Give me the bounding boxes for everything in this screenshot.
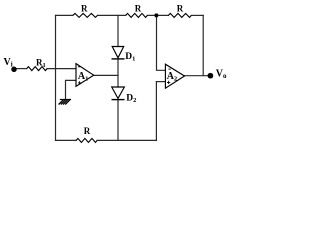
svg-text:R: R bbox=[177, 3, 184, 13]
svg-text:R: R bbox=[84, 126, 91, 136]
svg-text:R: R bbox=[135, 3, 142, 13]
svg-text:R: R bbox=[81, 3, 88, 13]
